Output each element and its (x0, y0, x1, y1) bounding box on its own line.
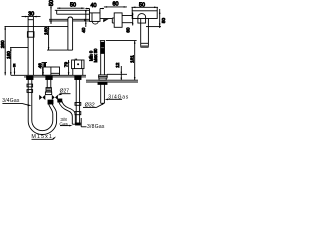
node 79 dim (68, 60, 70, 75)
svg-text:Ø27: Ø27 (60, 89, 70, 95)
node holder rect tall (112, 13, 122, 27)
svg-text:50: 50 (139, 2, 145, 8)
svg-text:M15x1: M15x1 (31, 134, 52, 140)
wire: deck line top (11, 74, 86, 76)
node right wing nut (52, 95, 58, 100)
svg-text:50: 50 (161, 18, 166, 24)
node 12 dim (107, 66, 127, 80)
node spout stub (44, 63, 46, 67)
wire: 260 extension line (5, 25, 68, 27)
node 3/4Gas right leader (105, 99, 122, 101)
node plan body rect (90, 13, 101, 24)
wire: hose 2 to shower pipe (59, 101, 76, 124)
svg-text:12: 12 (115, 62, 120, 68)
node label 3/8Gas leader L (81, 118, 86, 127)
node 50 vert dim (50, 6, 52, 25)
node 181 dim (106, 41, 137, 81)
node label 3/4Gas left leader (2, 103, 31, 106)
node Ø32 leader (83, 103, 105, 108)
node 30 dim (22, 16, 41, 18)
wire: U hose M15x1 (28, 104, 56, 134)
node 60 dim right (132, 13, 134, 26)
side view: handshower tube (68, 17, 73, 50)
node hose nut below T (48, 100, 53, 104)
svg-text:3/8Gas: 3/8Gas (87, 124, 105, 130)
svg-text:260: 260 (0, 40, 5, 48)
node label 3/8 Gas leader (60, 125, 73, 127)
wire: left inlet pipe (27, 76, 33, 106)
svg-text:Max 30: Max 30 (93, 48, 98, 62)
node 50 dim right top (132, 7, 158, 11)
svg-text:160: 160 (44, 27, 49, 35)
column: flange nut (98, 75, 108, 80)
side view: wall bar left cap (56, 10, 58, 14)
node clip wedge (101, 19, 113, 23)
wire: riser tube front view (27, 17, 34, 76)
svg-text:40: 40 (91, 3, 97, 9)
node handshower head D (138, 14, 146, 24)
side view: wall bar top (55, 9, 90, 11)
svg-text:60: 60 (126, 27, 131, 33)
node 40 horiz dim (85, 8, 104, 13)
node 46 dim (42, 63, 48, 76)
wire: deck line bottom (24, 76, 86, 78)
side view: wall bar bottom (57, 13, 90, 15)
svg-text:160: 160 (6, 51, 11, 59)
column: clamp block below deck (98, 82, 107, 84)
node 5 dim (14, 68, 16, 75)
svg-text:79: 79 (63, 62, 68, 68)
node label Ø27 leader (57, 93, 70, 95)
svg-text:181: 181 (129, 55, 134, 63)
node left wing nut (39, 95, 45, 100)
node handshower handle right view (141, 19, 149, 48)
column: body above deck (100, 41, 105, 75)
svg-text:3/4Gas: 3/4Gas (108, 95, 129, 101)
wire: deck line right bottom (86, 81, 138, 83)
svg-text:3/4Gas: 3/4Gas (2, 98, 20, 104)
wire: shower outlet pipe below deck (75, 76, 81, 125)
node holder plate right view (132, 11, 157, 19)
wire: middle pipe (46, 76, 52, 92)
svg-text:50: 50 (70, 2, 76, 8)
node 40 vert dim (85, 10, 87, 27)
svg-text:Gas: Gas (59, 121, 68, 126)
node 160 dim line left (10, 48, 12, 76)
node 160 dim middle (47, 26, 68, 50)
node 50 dim right side (146, 9, 161, 28)
node label M15x1 leader (32, 137, 57, 140)
wire: column tail pipe (101, 84, 105, 103)
node 50 horiz dim (57, 7, 85, 9)
node deck holder box (72, 59, 84, 76)
svg-text:50: 50 (49, 0, 55, 6)
svg-text:60: 60 (113, 1, 119, 7)
wire: deck line right top (86, 79, 138, 81)
side view: supply pipe bar (49, 19, 90, 21)
node 260 dim line (4, 26, 6, 75)
wire: 160 extension line (10, 47, 28, 49)
svg-text:30: 30 (28, 12, 34, 18)
node hose2 start nut (58, 99, 62, 102)
svg-text:Ø32: Ø32 (85, 103, 95, 109)
wire: links to right view (122, 16, 133, 23)
node 60 horiz dim (104, 6, 127, 8)
svg-text:40: 40 (81, 27, 86, 33)
node mixer body front rect (43, 67, 60, 75)
node T connector body (45, 92, 51, 95)
svg-text:46: 46 (38, 63, 43, 69)
